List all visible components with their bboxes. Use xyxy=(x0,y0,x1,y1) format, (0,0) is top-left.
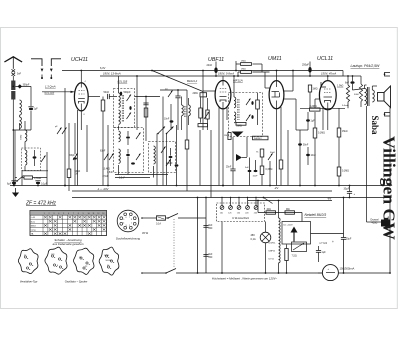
svg-text:MF11A: MF11A xyxy=(233,78,243,82)
resistor det c xyxy=(198,124,208,127)
wire speaker down xyxy=(389,108,391,186)
svg-text:5: 5 xyxy=(123,219,124,221)
svg-text:1M: 1M xyxy=(224,135,227,137)
svg-text:1μF: 1μF xyxy=(34,108,39,111)
osc coil 1a xyxy=(119,131,121,142)
wire x22 link xyxy=(21,171,23,178)
wire ps mid xyxy=(311,233,344,235)
svg-text:3: 3 xyxy=(53,213,54,215)
svg-text:220: 220 xyxy=(245,213,248,215)
voltage selector terminals xyxy=(220,206,224,210)
capacitor 10nF v4 xyxy=(306,154,310,156)
svg-text:0,1A: 0,1A xyxy=(156,223,161,226)
svg-text:1,5kΩ: 1,5kΩ xyxy=(337,85,344,88)
NTC arrow big xyxy=(291,227,298,233)
wire x87 branch xyxy=(86,125,88,172)
svg-text:Höchstwert = Meßwert , Werte g: Höchstwert = Meßwert , Werte gemessen am… xyxy=(212,276,277,280)
resistor x187 xyxy=(185,140,189,149)
trimmer tone xyxy=(268,154,273,161)
wire tap xyxy=(15,85,31,87)
tube V2 internals xyxy=(220,88,226,90)
svg-text:MΩ: MΩ xyxy=(286,209,290,211)
oscillator box 1 xyxy=(114,128,144,173)
wire V3 right pin2 xyxy=(284,98,296,100)
svg-text:5nF: 5nF xyxy=(209,225,214,227)
svg-text:5nF: 5nF xyxy=(17,72,22,75)
svg-text:150V, 45mA: 150V, 45mA xyxy=(321,72,336,76)
bandfilter box xyxy=(22,148,41,171)
capacitor x146 xyxy=(143,102,148,104)
svg-text:0,1μF: 0,1μF xyxy=(41,183,48,186)
resistor 7,5 ohm xyxy=(285,249,288,261)
wire -8V line xyxy=(248,200,332,202)
resistor 2M grid b xyxy=(241,71,252,74)
output transformer primary xyxy=(365,89,367,105)
IF2 trimmer 2 xyxy=(246,115,251,122)
wire x197 drop xyxy=(197,198,199,274)
svg-text:190V, 5-8mA: 190V, 5-8mA xyxy=(218,71,234,75)
capacitor 0,1uF xyxy=(36,182,40,184)
osc trimmer 4 xyxy=(166,160,171,167)
svg-text:0,2MΩ: 0,2MΩ xyxy=(310,105,317,108)
svg-text:0,1A: 0,1A xyxy=(251,238,256,241)
wire grid feed xyxy=(42,91,75,93)
trimmer osc a xyxy=(57,128,62,135)
capacitor 1uF antenna xyxy=(29,108,33,110)
NTC resistor diag xyxy=(292,242,307,252)
capacitor 6uF xyxy=(12,182,16,184)
switch contact a xyxy=(31,59,42,66)
svg-text:8: 8 xyxy=(78,213,79,215)
svg-text:L+M: L+M xyxy=(31,217,35,219)
detector triangle xyxy=(232,132,244,138)
svg-text:50nF: 50nF xyxy=(104,91,110,94)
tube socket diagram xyxy=(117,210,139,232)
wire x300 h xyxy=(296,129,308,131)
antenna choke lower xyxy=(11,91,15,100)
wire V3 bottom xyxy=(276,109,278,186)
wire V1 anode top xyxy=(80,71,82,83)
svg-text:8nF: 8nF xyxy=(345,82,350,85)
svg-text:110: 110 xyxy=(220,213,223,215)
svg-text:10: 10 xyxy=(88,213,90,215)
wire x163 drop xyxy=(162,97,164,186)
svg-text:Kurz: Kurz xyxy=(31,220,35,223)
coil pack outline 3 xyxy=(74,248,94,274)
svg-text:2MΩ: 2MΩ xyxy=(241,69,246,71)
svg-text:13,4kΩ: 13,4kΩ xyxy=(103,169,111,171)
pot arrow xyxy=(236,154,242,161)
wire x219 low xyxy=(218,130,220,186)
trimmer pad a xyxy=(104,154,109,161)
tube V2 UBF11 xyxy=(215,81,231,109)
oscillator box 2 xyxy=(149,142,176,173)
svg-text:U W-Anschluß: U W-Anschluß xyxy=(232,216,249,220)
svg-text:8: 8 xyxy=(131,219,132,221)
wire eye left pin xyxy=(265,87,270,89)
svg-text:UCL11: UCL11 xyxy=(317,56,333,62)
wire V4 top xyxy=(327,76,329,81)
antenna xyxy=(4,57,22,62)
wire cathode h line xyxy=(300,107,345,109)
wire osc1 bottom xyxy=(115,174,168,176)
wire ground bus xyxy=(10,185,390,187)
IF1 trimmer 1 xyxy=(127,95,132,102)
resistor 1M eye xyxy=(308,85,311,92)
svg-text:10nF: 10nF xyxy=(164,119,170,121)
svg-text:13: 13 xyxy=(102,213,104,215)
heater chain xyxy=(279,218,281,263)
wire bandfilter bottom xyxy=(22,170,48,172)
wire transformer top xyxy=(353,89,365,91)
svg-text:9: 9 xyxy=(83,213,84,215)
svg-text:5000: 5000 xyxy=(354,94,360,96)
wire V3 top xyxy=(276,71,278,81)
wire IF2 right xyxy=(257,93,259,100)
svg-text:7: 7 xyxy=(73,213,74,215)
switch band b xyxy=(167,127,174,134)
svg-text:0,1MΩ: 0,1MΩ xyxy=(342,171,349,173)
IF1 cap xyxy=(129,106,131,110)
osc coil 1b xyxy=(119,149,121,163)
capacitor 5nF mains a xyxy=(203,225,208,227)
wire IF1 top xyxy=(118,89,120,94)
trimmer det xyxy=(204,112,209,119)
svg-text:240pF: 240pF xyxy=(166,163,173,165)
switch link dotted xyxy=(173,219,175,268)
svg-text:5-6mA: 5-6mA xyxy=(342,104,349,107)
wire V2 top xyxy=(222,76,224,81)
IF1 core xyxy=(121,95,123,122)
wire x65 branch xyxy=(64,88,66,186)
wire V4 left xyxy=(315,98,320,100)
wire heater bus 6,3V xyxy=(62,70,343,72)
IF2 trimmer 1 xyxy=(246,99,251,106)
bandfilter trimmer xyxy=(41,156,46,163)
IF1 trimmer 2 xyxy=(127,113,132,120)
svg-text:63pF: 63pF xyxy=(70,155,76,157)
svg-text:1,5nF: 1,5nF xyxy=(107,172,113,174)
wire x270 drop xyxy=(269,161,271,186)
IF transformer 1 enclosure xyxy=(114,89,135,128)
svg-text:20nF: 20nF xyxy=(207,64,213,67)
svg-text:63pF: 63pF xyxy=(100,151,106,153)
svg-text:2: 2 xyxy=(48,213,49,215)
wire x171 drop xyxy=(170,104,172,130)
tube V4 internals xyxy=(324,88,332,90)
trimmer pad b xyxy=(109,154,114,161)
switch klang xyxy=(264,198,273,204)
osc cap 1 xyxy=(126,136,130,138)
current meter xyxy=(322,265,338,281)
wire x203 vertical xyxy=(202,71,204,131)
svg-text:Saba: Saba xyxy=(370,116,380,136)
wire IF1 bottom xyxy=(118,126,120,131)
svg-text:1: 1 xyxy=(131,222,132,224)
switch contact b xyxy=(51,59,61,66)
svg-text:15kΩ: 15kΩ xyxy=(342,131,348,133)
svg-text:UCH11: UCH11 xyxy=(71,57,88,63)
svg-text:Oszillator – Spulen: Oszillator – Spulen xyxy=(65,279,88,283)
svg-text:1,3 QmA: 1,3 QmA xyxy=(45,85,56,89)
capacitor 63pF xyxy=(73,154,78,161)
svg-text:UBF11: UBF11 xyxy=(269,251,276,253)
wire x187 drop xyxy=(186,90,188,140)
svg-text:30μF: 30μF xyxy=(344,187,350,190)
svg-text:Sockelbezeichnung: Sockelbezeichnung xyxy=(116,236,141,240)
IF2 resistor xyxy=(256,100,260,109)
wire bottom bus xyxy=(72,197,390,199)
tube V1 internals xyxy=(79,90,85,92)
wire IF2 top xyxy=(233,76,235,97)
dial lamp xyxy=(260,232,271,243)
wire HT bus 190V xyxy=(100,75,346,77)
capacitor 5nF low xyxy=(248,170,252,172)
svg-text:ZF = 472 kHz: ZF = 472 kHz xyxy=(25,201,57,207)
osc cap 2 xyxy=(126,154,130,156)
switch band a xyxy=(158,127,165,134)
switch wave xyxy=(17,176,24,182)
wire chain bottom xyxy=(278,263,280,273)
wire x137 drop xyxy=(136,76,138,130)
wire x281 drop xyxy=(280,107,282,160)
resistor 5000 zigzag xyxy=(359,84,362,101)
osc trimmer 3 xyxy=(161,147,166,154)
resistor mid b xyxy=(285,211,295,214)
tube V1 UCH11 xyxy=(74,83,88,111)
svg-text:-2V: -2V xyxy=(274,186,278,190)
capacitor 1uF v4 xyxy=(306,119,310,121)
IF2 cap b xyxy=(251,115,253,119)
wire antenna down xyxy=(12,100,14,186)
capacitor 1uF ps xyxy=(316,250,321,252)
svg-text:THERMO: THERMO xyxy=(254,138,263,140)
svg-text:-1 ÷ -20V: -1 ÷ -20V xyxy=(97,187,109,191)
output transformer secondary xyxy=(372,90,374,102)
svg-text:50pF: 50pF xyxy=(270,152,276,154)
wire mains top xyxy=(142,217,157,219)
svg-text:125: 125 xyxy=(228,213,231,215)
svg-text:40Ω: 40Ω xyxy=(267,209,272,211)
svg-text:190V, 13-8mA: 190V, 13-8mA xyxy=(103,72,121,76)
svg-text:150(300)mA: 150(300)mA xyxy=(340,266,355,270)
wire lamp up xyxy=(265,222,267,233)
wire V3 right pin xyxy=(284,90,293,92)
svg-text:Lautspr. P64/2,5W: Lautspr. P64/2,5W xyxy=(351,64,381,68)
wire det coil bottom xyxy=(181,116,183,130)
capacitor 50nF v4 xyxy=(298,143,302,145)
svg-text:B2L11B: B2L11B xyxy=(118,80,128,84)
wire x75 branch xyxy=(74,123,76,154)
svg-text:4: 4 xyxy=(123,222,124,224)
speaker terminal bottom xyxy=(385,113,391,117)
wire V2 left grid xyxy=(203,90,215,92)
svg-text:UM11: UM11 xyxy=(268,56,282,62)
wire top right feed xyxy=(342,71,344,77)
osc coil 2 xyxy=(154,146,156,164)
wire chain top xyxy=(278,201,280,219)
resistor 0,1M v4 xyxy=(313,128,317,138)
svg-text:4: 4 xyxy=(58,213,59,215)
resistor det b xyxy=(206,110,209,119)
bandfilter coil upper xyxy=(25,130,27,141)
resistor 1M v2 xyxy=(228,133,231,140)
volume pot 2M xyxy=(200,93,207,97)
detector coil a xyxy=(182,105,184,116)
capacitor 50nF xyxy=(107,94,109,99)
coil pack outline 1 xyxy=(18,249,38,274)
trimmer osc b xyxy=(62,128,67,135)
IF2 cap a xyxy=(251,101,253,105)
IF1 secondary coil xyxy=(119,110,121,124)
capacitor x178 xyxy=(175,95,180,97)
capacitor 10nF det xyxy=(170,120,174,122)
svg-text:Mittel: Mittel xyxy=(31,224,37,227)
wire osc lower xyxy=(115,177,150,179)
wire x223 low xyxy=(222,120,224,186)
capacitor 500pF xyxy=(120,92,122,96)
osc cap 3 xyxy=(131,162,135,164)
svg-text:Netzteil 86/2/3: Netzteil 86/2/3 xyxy=(305,213,327,217)
svg-text:B2L11B: B2L11B xyxy=(45,91,55,95)
svg-text:45 W: 45 W xyxy=(142,231,149,235)
capacitor 240pF xyxy=(175,164,179,166)
svg-text:Villingen GW: Villingen GW xyxy=(380,136,399,240)
bandfilter coil lower xyxy=(25,150,27,165)
resistor 15k v4 xyxy=(337,128,341,137)
switch mains a xyxy=(166,217,169,219)
capacitor 300pF xyxy=(18,84,22,88)
svg-text:5: 5 xyxy=(63,213,64,215)
svg-text:2: 2 xyxy=(129,225,130,227)
resistor 50k 1W xyxy=(67,169,71,178)
switch position table xyxy=(30,211,107,236)
svg-text:6,3V: 6,3V xyxy=(100,66,106,70)
wire x15 drop xyxy=(14,130,16,186)
wire x211 drop xyxy=(210,130,212,198)
svg-text:10nF: 10nF xyxy=(253,176,259,178)
svg-text:250pF: 250pF xyxy=(302,64,310,67)
svg-text:1: 1 xyxy=(44,213,45,215)
resistor x146 box xyxy=(144,108,148,117)
IF2 coil b xyxy=(234,112,236,123)
svg-text:25nF: 25nF xyxy=(226,167,232,169)
svg-text:5nF: 5nF xyxy=(245,167,249,169)
NTC box xyxy=(282,222,311,245)
capacitor 20nF top xyxy=(214,67,217,73)
wire x247 drop xyxy=(246,137,248,157)
osc cap 4 xyxy=(169,156,173,158)
capacitor 250pF xyxy=(308,67,311,73)
wire x69 branch xyxy=(68,123,70,169)
resistor therm xyxy=(253,136,269,140)
svg-text:5000Ω: 5000Ω xyxy=(106,260,112,262)
svg-text:20μF: 20μF xyxy=(346,238,352,241)
resistor field coil zigzag xyxy=(346,85,349,102)
fuse 0,1A xyxy=(157,216,166,220)
wire choke link xyxy=(367,221,382,223)
osc trimmer 1 xyxy=(136,133,141,140)
svg-text:7: 7 xyxy=(129,217,130,219)
wire eye grid a xyxy=(253,63,263,65)
antenna coupling X caps xyxy=(12,69,16,72)
svg-text:48V: 48V xyxy=(251,234,256,237)
svg-text:7,5Ω: 7,5Ω xyxy=(292,255,297,258)
svg-text:-8V: -8V xyxy=(327,197,331,201)
detector core xyxy=(184,106,186,118)
wire x108 branch xyxy=(107,125,109,186)
wire x288 drop xyxy=(287,130,289,186)
IF1 primary coil xyxy=(119,93,121,107)
switch mains b xyxy=(166,269,176,274)
speaker terminal top xyxy=(385,73,391,77)
wire coil link xyxy=(19,115,21,117)
wire x157 drop xyxy=(156,134,158,186)
wire V1 grid right xyxy=(88,96,100,98)
resistor 0,5M xyxy=(24,176,33,179)
svg-text:2MΩ: 2MΩ xyxy=(241,61,246,63)
junction antenna xyxy=(12,86,14,88)
wire right riser xyxy=(389,198,391,274)
svg-text:10nF: 10nF xyxy=(311,155,317,157)
svg-text:UY11: UY11 xyxy=(269,259,275,261)
svg-text:0,3MΩ: 0,3MΩ xyxy=(266,169,273,171)
svg-text:aus Federseite gesehen: aus Federseite gesehen xyxy=(52,242,83,246)
tube V3 internals xyxy=(272,91,280,93)
wire v4 bottom xyxy=(327,109,329,130)
svg-text:100Ω: 100Ω xyxy=(104,255,109,257)
IF2 coil a xyxy=(234,97,236,108)
antenna choke upper xyxy=(11,81,15,91)
svg-text:50nF: 50nF xyxy=(303,145,309,147)
svg-text:240: 240 xyxy=(254,213,257,215)
wire V1 cathode down xyxy=(80,111,82,123)
svg-text:1MΩ: 1MΩ xyxy=(313,89,318,91)
resistor 0,3M xyxy=(260,166,264,175)
resistor 0,1M v4b xyxy=(337,167,341,176)
capacitor 20uF xyxy=(341,237,346,239)
svg-text:6: 6 xyxy=(68,213,69,215)
wire det coil top xyxy=(181,97,183,106)
svg-text:+: + xyxy=(332,240,334,244)
svg-text:0,1MΩ: 0,1MΩ xyxy=(318,133,325,135)
wire x176 xyxy=(176,125,178,164)
wire speaker right xyxy=(390,86,392,108)
coil pack outline 4 xyxy=(99,247,119,275)
svg-text:500pF: 500pF xyxy=(124,91,132,94)
svg-text:700Ω: 700Ω xyxy=(21,134,23,140)
svg-text:6: 6 xyxy=(126,217,127,219)
voltage selector box xyxy=(217,203,265,222)
wire trafo down xyxy=(366,106,368,222)
svg-text:B2A11,2: B2A11,2 xyxy=(187,79,198,83)
capacitor 5nF mains b xyxy=(203,254,208,256)
svg-text:1μF: 1μF xyxy=(322,251,327,254)
wire V4 grid left xyxy=(310,109,321,111)
bandfilter cap xyxy=(33,156,37,158)
resistor 2M grid a xyxy=(241,63,252,66)
wire cap branch xyxy=(30,86,32,106)
capacitor 8nF xyxy=(350,81,354,84)
wire antenna stub xyxy=(12,76,14,81)
svg-text:5nF: 5nF xyxy=(209,254,214,256)
capacitor 30uF xyxy=(347,191,352,193)
svg-text:11: 11 xyxy=(92,213,94,215)
resistor 7k xyxy=(260,149,264,157)
wire x200 drop xyxy=(199,130,201,186)
antenna coil primary xyxy=(20,100,22,115)
svg-text:U Y11: U Y11 xyxy=(320,241,328,245)
